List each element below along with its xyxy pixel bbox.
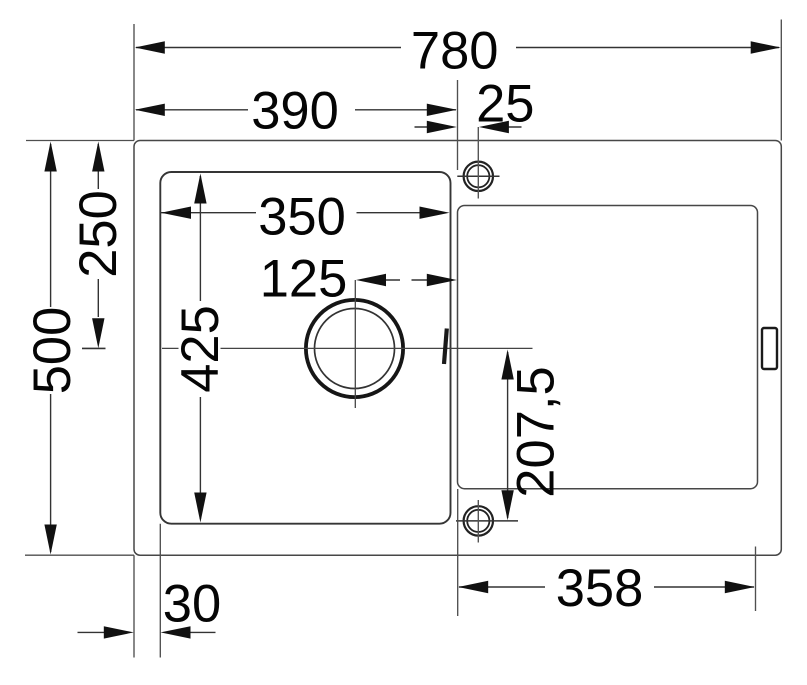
top tap hole inner circle xyxy=(467,165,489,187)
dimension 30 left arrow xyxy=(104,626,134,638)
dimension 125 right arrow xyxy=(427,274,457,286)
dimension 350 left arrow xyxy=(161,207,191,219)
dimension 207,5 bottom arrow xyxy=(501,490,513,520)
dimension 350 line xyxy=(161,212,420,214)
dimension 25 left line xyxy=(415,126,453,128)
oblique tick at basin edge on centerline xyxy=(444,329,447,365)
drain hole inner circle xyxy=(315,309,395,389)
drain vertical centerline xyxy=(354,280,356,408)
extension line basin left below xyxy=(159,524,161,658)
horizontal centerline tick (250 terminator) xyxy=(82,347,106,349)
dimension 780 left arrow xyxy=(135,41,165,53)
dimension 780 line xyxy=(136,47,779,49)
horizontal centerline left segment xyxy=(162,347,179,349)
svg-text:125: 125 xyxy=(260,250,348,309)
dimension 250 bottom arrow xyxy=(92,318,104,348)
dimension 390 line xyxy=(136,109,456,111)
extension line drainer right below xyxy=(755,547,757,612)
svg-text:500: 500 xyxy=(23,307,82,395)
svg-text:390: 390 xyxy=(251,82,339,141)
extension line top edge to left xyxy=(26,140,134,142)
extension line divider above xyxy=(457,80,459,170)
dimension 425 bottom arrow xyxy=(194,493,206,523)
dimension 500 bottom arrow xyxy=(44,525,56,555)
basin (left bowl) outline xyxy=(160,172,450,524)
extension line bottom edge to left xyxy=(25,554,134,556)
dimension 207,5 line xyxy=(507,352,509,518)
extension line left edge above xyxy=(133,24,135,141)
bottom tap crosshair horizontal xyxy=(456,520,518,522)
dimension 350 right arrow xyxy=(420,207,450,219)
dimension 30 right line xyxy=(186,631,216,633)
dimension 500 top arrow xyxy=(44,142,56,172)
svg-text:780: 780 xyxy=(411,22,499,81)
dimension 30 left line xyxy=(78,631,111,633)
extension line right edge above xyxy=(780,20,782,141)
svg-text:250: 250 xyxy=(69,190,128,278)
overflow slot xyxy=(762,328,777,369)
svg-text:350: 350 xyxy=(258,188,346,247)
svg-text:25: 25 xyxy=(476,75,534,134)
dimension 125 line xyxy=(383,279,430,281)
dimension 425 line xyxy=(199,176,201,519)
svg-text:207,5: 207,5 xyxy=(507,366,566,497)
svg-text:358: 358 xyxy=(556,559,644,618)
dimension 30 right arrow xyxy=(161,626,191,638)
svg-text:425: 425 xyxy=(171,305,230,393)
dimension 358 left arrow xyxy=(458,581,488,593)
drain hole outer circle xyxy=(306,300,403,397)
dimension 780 right arrow xyxy=(751,41,781,53)
dimension 358 right arrow xyxy=(725,581,755,593)
svg-text:30: 30 xyxy=(163,575,221,634)
bottom tap crosshair vertical xyxy=(477,500,479,543)
top tap crosshair vertical xyxy=(477,127,479,199)
top tap hole outer circle xyxy=(464,162,493,191)
dimension 250 line xyxy=(97,144,99,317)
extension line divider below xyxy=(457,489,459,616)
drainer (right) outline xyxy=(458,206,758,489)
dimension 358 line xyxy=(459,586,754,588)
extension line left edge below xyxy=(133,555,135,657)
dimension 500 line xyxy=(50,144,52,552)
sink outer outline xyxy=(134,141,781,556)
dimension 390 right arrow xyxy=(427,104,457,116)
dimension 390 left arrow xyxy=(135,104,165,116)
dimension 25 right line xyxy=(483,126,522,128)
dimension 125 left arrow xyxy=(356,274,386,286)
dimension 25 right arrow xyxy=(479,121,509,133)
bottom tap hole inner circle xyxy=(467,510,489,532)
dimension 25 left arrow xyxy=(427,121,457,133)
top tap crosshair horizontal xyxy=(457,175,499,177)
bottom tap hole outer circle xyxy=(464,506,493,535)
dimension 207,5 top arrow xyxy=(501,350,513,380)
horizontal centerline main segment xyxy=(221,347,533,349)
dimension 425 top arrow xyxy=(194,174,206,204)
dimension 250 top arrow xyxy=(92,142,104,172)
